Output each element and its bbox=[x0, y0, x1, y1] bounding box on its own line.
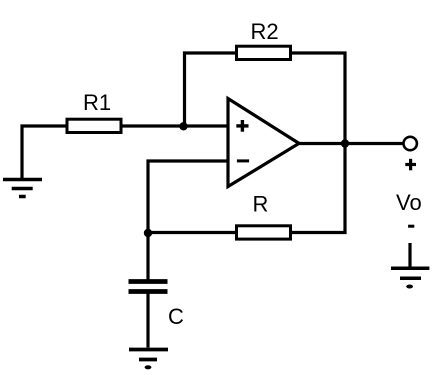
ground GND3 (right) bbox=[391, 268, 429, 288]
output terminal circle bbox=[404, 137, 417, 150]
svg-text:R1: R1 bbox=[83, 90, 111, 115]
ground GND2 (bottom) bbox=[129, 350, 168, 370]
wire: R1 to op-amp noninverting input bbox=[121, 124, 228, 127]
capacitor C1 bbox=[129, 282, 168, 292]
node C: output junction bbox=[341, 139, 349, 147]
svg-text:C: C bbox=[168, 304, 184, 329]
svg-text:R: R bbox=[253, 192, 269, 217]
resistor R1 bbox=[67, 119, 121, 132]
wire: R2 right down to output node bbox=[291, 53, 346, 144]
wire: resistor R left to node B bbox=[148, 231, 237, 234]
label + (output polarity) bbox=[405, 159, 416, 171]
op-amp U1 bbox=[228, 99, 299, 187]
wire: output node down and left to resistor R bbox=[291, 144, 346, 233]
op-amp - input marker bbox=[237, 159, 249, 162]
wire: node A up to R2 bbox=[185, 53, 237, 126]
node B: inverting net junction bbox=[144, 229, 152, 237]
ground GND1 (left) bbox=[3, 180, 42, 197]
resistor R2 bbox=[237, 46, 291, 59]
node A: feedback tap junction bbox=[179, 122, 187, 130]
wire: terminal ground stem bbox=[408, 243, 411, 268]
svg-text:R2: R2 bbox=[251, 19, 279, 44]
wire: inverting input left and down to capacitor bbox=[148, 161, 228, 280]
op-amp + input marker bbox=[236, 120, 248, 132]
wire: left ground stem up and across to R1 bbox=[22, 126, 67, 180]
wire: op-amp output to terminal bbox=[299, 142, 404, 145]
resistor R bbox=[237, 226, 291, 239]
svg-text:Vo: Vo bbox=[396, 190, 422, 215]
wire: capacitor bottom to ground bbox=[146, 294, 149, 348]
label - (output polarity) bbox=[408, 225, 414, 228]
